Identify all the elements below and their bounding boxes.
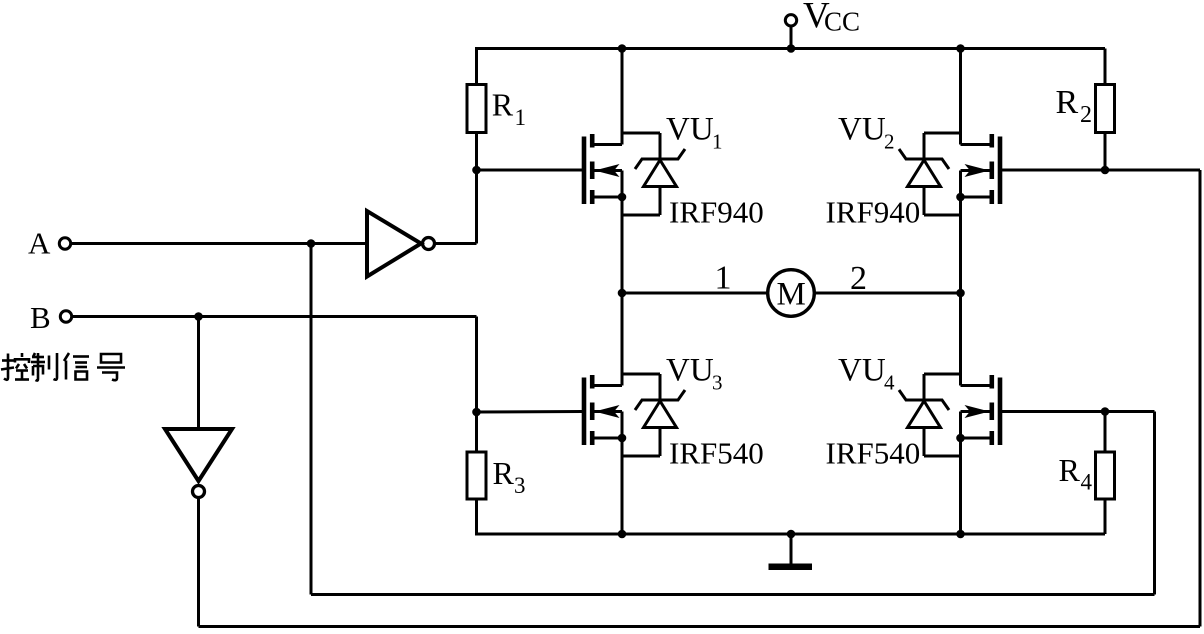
wire inverter-A output [435,242,477,245]
wire VU1 drain lead [595,143,623,146]
wire VU4 gate lead [1002,410,1155,413]
body zener diode of VU1 anode triangle [644,160,677,187]
wire VU2 drain to rail [959,49,962,145]
label control signal (Chinese: kong zhi xin hao) drawn as paths [1,353,125,381]
wire up to VU4 gate line [1153,412,1156,595]
svg-text:2: 2 [1080,102,1092,128]
wire B to inverter-B input [197,317,200,430]
svg-text:3: 3 [514,473,526,498]
transistor VU4 gate bar [998,378,1003,446]
resistor R4 body [1096,452,1115,499]
wire VU1 body diode bottom branch [659,187,662,216]
node VU3 body-source junction [618,434,627,443]
svg-text:IRF540: IRF540 [826,436,921,471]
wire VU3 body lead [595,410,623,413]
svg-text:VU: VU [666,353,714,389]
resistor R1 body [467,85,486,133]
VU2 body arrow [965,164,990,177]
svg-text:2: 2 [884,130,895,154]
transistor VU4 channel dashes [989,375,994,389]
transistor VU1 channel dashes [590,134,595,148]
svg-text:R: R [1059,452,1081,488]
wire VU3 source to bottom rail [621,412,624,535]
wire VU1 gate lead [477,169,583,172]
body zener diode of VU2 anode triangle [908,160,941,187]
wire VU4 source to bottom rail [959,412,962,535]
body zener diode of VU1 cathode bar [635,149,685,169]
svg-text:R: R [493,455,515,491]
svg-text:CC: CC [824,7,860,37]
svg-text:B: B [30,300,51,335]
wire VU3 body diode top branch [622,373,660,376]
node B junction [194,312,203,321]
wire A to VU4 gate horizontal [311,593,1155,596]
svg-text:1: 1 [712,130,723,154]
wire VU3 body diode bottom branch [659,428,662,457]
wire VU2 source lead [961,196,990,199]
node VU4 body-source junction [956,434,965,443]
wire VU2 gate lead [1002,169,1200,172]
svg-text:M: M [777,277,806,313]
node VU1 gate junction [472,166,481,175]
wire input B [72,315,477,318]
transistor VU1 gate bar [582,137,587,205]
svg-text:VU: VU [666,112,714,148]
terminal B [60,311,71,322]
resistor R2 [1104,49,1107,86]
transistor VU3 channel dashes [590,375,595,389]
node motor rail right junction [956,289,965,298]
wire VU2 source down to motor rail [959,171,962,294]
wire inverter-B output down [197,498,200,627]
wire VU4 body diode top branch [924,373,961,376]
svg-text:4: 4 [1081,470,1093,495]
wire inverter-B output to VU2 gate horizontal [199,625,1201,628]
body zener diode of VU4 anode triangle [908,401,941,428]
body zener diode of VU3 cathode bar [635,390,685,410]
wire VU3 gate lead [477,410,583,414]
wire VU1 body diode top branch [622,132,660,135]
inverter (NOT gate) for A [367,211,421,277]
wire bottom rail [475,533,1105,536]
node VU4 gate junction [1101,407,1110,416]
node VCC junction [787,44,796,53]
wire R1 bottom / VU1 gate node vertical [475,132,478,244]
node VU3 source junction [618,530,627,539]
svg-text:R: R [1056,84,1079,121]
VU1 body arrow [595,164,620,177]
svg-text:2: 2 [850,260,867,297]
node VU1 drain junction [618,44,627,53]
node VU2 drain junction [956,44,965,53]
ground symbol [790,534,793,564]
VU4 body arrow [965,405,990,418]
resistor R1 [475,49,478,86]
wire up right edge to VU2 gate line [1199,170,1202,627]
wire motor rail to VU3 drain [621,293,624,386]
wire motor rail to VU4 drain [959,293,962,386]
inverter (NOT gate) for B, pointing down [165,429,232,481]
wire VU4 drain lead [961,384,990,387]
resistor R3 [475,412,478,452]
wire A junction down [310,244,313,595]
wire VU2 body diode top branch [924,132,961,135]
svg-text:1: 1 [715,260,732,297]
wire VU2 drain lead [961,143,990,146]
transistor VU2 gate bar [998,137,1003,205]
node VU1 body-source junction [618,193,627,202]
wire VU3 source lead [595,437,623,440]
svg-text:3: 3 [712,371,723,395]
VCC terminal [785,15,796,26]
resistor R4 [1104,412,1107,452]
svg-text:A: A [28,226,51,261]
wire input A [71,242,366,245]
node VU3 gate junction [472,408,481,417]
body zener diode of VU3 anode triangle [644,401,677,428]
VU3 body arrow [595,405,620,418]
svg-text:IRF540: IRF540 [669,436,764,471]
wire VU2 body lead [961,169,990,172]
transistor VU2 channel dashes [989,134,994,148]
body zener diode of VU2 cathode bar [899,149,949,169]
wire VU4 source lead [961,437,990,440]
wire motor left [622,292,767,295]
wire VU1 body lead [595,169,623,172]
node VU4 source junction [956,530,965,539]
wire VU2 body diode bottom branch [923,187,926,216]
node ground junction [787,530,796,539]
wire B down to VU3 gate node [475,317,478,413]
wire VU4 body lead [961,410,990,413]
node VU2 gate junction [1101,166,1110,175]
svg-text:IRF940: IRF940 [669,195,764,230]
svg-text:1: 1 [515,105,527,130]
node VU2 body-source junction [956,193,965,202]
motor M [768,270,815,317]
resistor R2 body [1096,85,1115,133]
node A junction [307,239,316,248]
svg-text:VU: VU [838,112,886,148]
wire VU4 body diode bottom branch [923,428,926,457]
terminal A [59,238,70,249]
svg-text:4: 4 [884,371,895,395]
wire VU1 source down to motor rail [621,171,624,294]
svg-text:R: R [492,87,514,123]
svg-text:VU: VU [838,353,886,389]
wire motor right [815,292,961,295]
wire VU1 source lead [595,196,623,199]
svg-text:IRF940: IRF940 [826,195,921,230]
wire VU3 drain lead [595,384,623,387]
wire top VCC rail [475,47,1105,50]
body zener diode of VU4 cathode bar [899,390,949,410]
transistor VU3 gate bar [582,378,587,446]
wire VU1 drain to rail [621,49,624,145]
node motor rail left junction [618,289,627,298]
resistor R3 body [467,452,486,499]
